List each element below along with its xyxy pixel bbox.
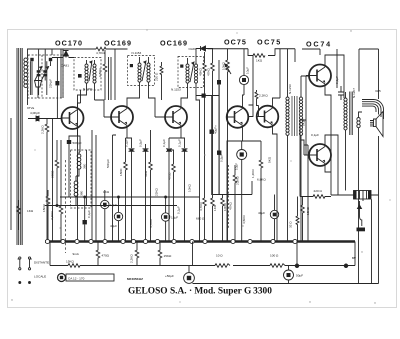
wire Q7 collector <box>325 135 338 195</box>
wire top rail left <box>52 49 96 55</box>
wire top rail right <box>279 49 281 98</box>
svg-text:N.1153: N.1153 <box>171 88 181 92</box>
transistor Q1 OC170 <box>62 107 84 129</box>
svg-text:15KΩ: 15KΩ <box>306 206 310 215</box>
svg-text:+50μF: +50μF <box>165 274 174 278</box>
svg-text:45KΩ: 45KΩ <box>199 67 203 76</box>
wire Q5 emitter <box>273 128 278 241</box>
svg-text:22KΩ: 22KΩ <box>155 187 159 196</box>
svg-text:10KΩ: 10KΩ <box>222 61 226 70</box>
diode OA81 (first) <box>52 51 74 68</box>
electrolytic 12uF <box>161 197 178 241</box>
resistor 1K left low <box>17 200 34 230</box>
transistor Q7 OC74 <box>309 144 331 166</box>
wire Q2 collector <box>127 88 140 106</box>
resistor 2.2K osc <box>50 140 63 241</box>
electrolytic 50uF bottom right <box>284 266 304 284</box>
wire T2 secondary down <box>149 88 166 117</box>
resistor 680 ohm Q1 <box>51 140 59 206</box>
resistor 4.7K top <box>96 47 128 55</box>
transistor Q2 OC169 <box>111 106 133 128</box>
svg-text:220 Ω: 220 Ω <box>314 189 323 193</box>
wire rail drop 115 <box>114 49 116 100</box>
wire agc horizontal <box>196 95 219 97</box>
resistor 2.2K Q1 base <box>41 119 49 242</box>
capacitor black det <box>202 94 206 98</box>
svg-text:OC169: OC169 <box>160 39 188 48</box>
bottom rail wire <box>192 242 194 266</box>
svg-text:N.1210: N.1210 <box>288 84 292 94</box>
svg-text:1,2KΩ: 1,2KΩ <box>251 169 255 178</box>
IF transformer T3 <box>171 57 204 92</box>
resistor 2.2K mid <box>233 165 239 241</box>
svg-text:40μF: 40μF <box>110 224 117 228</box>
electrolytic 50uF bottom mid <box>165 266 194 284</box>
svg-text:1KΩ: 1KΩ <box>103 190 110 194</box>
svg-text:0,1μF: 0,1μF <box>162 139 166 147</box>
svg-text:CA 12 - 170: CA 12 - 170 <box>68 276 85 280</box>
bottom return rail <box>193 283 379 285</box>
resistor 15K right <box>301 197 310 242</box>
driver transformer T4 <box>286 49 303 241</box>
wire Q3 emitter chain <box>169 128 185 148</box>
wire T1 right feeds <box>109 57 112 100</box>
svg-text:2,2KΩ: 2,2KΩ <box>50 211 54 220</box>
svg-text:100 Ω: 100 Ω <box>270 254 279 258</box>
wire bias mid <box>304 145 308 241</box>
electrolytic 40uF right <box>258 195 279 242</box>
resistor 470 ohm bias <box>96 242 109 266</box>
capacitor 0.1uF output <box>335 49 344 100</box>
svg-text:OC74: OC74 <box>306 40 332 49</box>
capacitor 0.1uF Q3 <box>162 139 172 241</box>
wire Q2 emitter chain <box>126 128 132 148</box>
wire top right loop <box>359 49 379 195</box>
svg-text:6,8KΩ: 6,8KΩ <box>98 68 102 77</box>
oscillator transformer dashed box <box>71 150 92 208</box>
resistor 100 low <box>221 195 227 241</box>
resistor 6.8K from rail <box>98 50 107 100</box>
svg-text:OC75: OC75 <box>257 38 282 47</box>
svg-text:6V: 6V <box>352 256 357 260</box>
resistor 45K detector <box>199 52 207 195</box>
agc rail lower <box>45 205 178 207</box>
variable capacitor C1 <box>30 49 42 95</box>
battery plus dot <box>295 242 299 268</box>
svg-text:0,1μF: 0,1μF <box>177 206 181 214</box>
svg-text:4,0KpF: 4,0KpF <box>30 111 40 115</box>
svg-text:OC169: OC169 <box>104 39 132 48</box>
wire T3 secondary down <box>196 88 200 241</box>
svg-text:470Ω: 470Ω <box>168 172 172 180</box>
capacitor black low mid <box>83 197 92 241</box>
resistor 10 ohm <box>215 254 230 268</box>
resistor 3K <box>144 130 152 241</box>
svg-text:6,8KΩ: 6,8KΩ <box>257 178 266 182</box>
agc rail upper <box>60 196 200 198</box>
capacitor 0.1uF Q3b <box>178 139 188 241</box>
wire Q7 emitter <box>325 166 331 172</box>
scan speckle <box>11 29 390 303</box>
detector diode OA81 <box>196 46 213 58</box>
antenna coil L1 <box>24 49 63 105</box>
wire Q4 collector/emitter <box>227 95 258 241</box>
svg-text:LOCALE: LOCALE <box>34 275 46 279</box>
svg-text:OC75: OC75 <box>224 38 247 47</box>
wire Q6 collector to output transformer <box>325 55 344 98</box>
svg-text:2,2KΩ: 2,2KΩ <box>130 254 134 263</box>
resistor 2.2K Q5 base <box>255 90 268 117</box>
svg-text:15KΩ: 15KΩ <box>42 203 46 212</box>
volume potentiometer 10K <box>222 49 232 241</box>
svg-text:5KΩ: 5KΩ <box>268 156 272 163</box>
wire driver secondary to bases <box>301 76 309 241</box>
tuning gang dashed box <box>28 55 63 98</box>
capacitor 22KpF <box>49 58 60 119</box>
resistor 100 ohm bias3 <box>270 254 285 268</box>
svg-text:680Ω: 680Ω <box>51 170 55 178</box>
capacitor 4.7KpF base Q1 <box>28 116 62 122</box>
svg-text:47KΩ: 47KΩ <box>229 201 233 210</box>
resistor 32 ohm <box>289 197 300 242</box>
IF transformer T2 <box>128 51 159 88</box>
resistor 470 ohm Q3 <box>168 150 176 241</box>
wire gang right leads <box>61 49 63 98</box>
svg-text:32 Ω: 32 Ω <box>289 221 293 228</box>
wire Q1 emitter chain <box>69 129 80 197</box>
svg-text:12μF: 12μF <box>171 216 178 220</box>
svg-text:380: 380 <box>80 191 84 196</box>
wire Q5 collector <box>273 98 281 106</box>
wire Q1 collector <box>78 90 81 107</box>
svg-text:OC170: OC170 <box>55 39 83 48</box>
svg-text:0,1μF: 0,1μF <box>335 76 339 84</box>
resistor 47K agc <box>207 49 215 196</box>
svg-text:15KΩ: 15KΩ <box>66 260 75 264</box>
svg-text:OA81: OA81 <box>61 64 69 68</box>
wire low rail det <box>213 85 252 195</box>
bus junction nodes <box>45 239 297 243</box>
svg-text:220 Ω: 220 Ω <box>155 72 159 81</box>
resistor 1K top mid <box>253 54 265 63</box>
wire feed Q4 base <box>249 56 254 117</box>
resistor 180 ohm Q2 <box>119 138 127 241</box>
svg-text:GELOSO S.A. · Mod. Super: GELOSO S.A. · Mod. Super G 3300 <box>128 287 272 297</box>
wire vertical T1 secondary down <box>95 89 112 117</box>
svg-text:0,1μF: 0,1μF <box>87 210 91 218</box>
capacitor 400uF mid <box>217 85 224 195</box>
resistor 6.8K Q5 <box>257 141 266 241</box>
thermistor box <box>331 191 379 284</box>
resistor 15K bias2 <box>158 242 172 266</box>
resistor 220 ohm <box>300 76 331 199</box>
transistor Q3 OC169 <box>165 106 187 128</box>
capacitor 40uF mid <box>210 95 218 195</box>
svg-text:680 Ω: 680 Ω <box>196 217 205 221</box>
resistor 15K left <box>42 190 50 241</box>
svg-text:3KΩ: 3KΩ <box>144 170 148 177</box>
wire mid verticals <box>92 130 116 241</box>
transistor Q4 OC75 <box>227 106 249 128</box>
svg-text:MF465KHZ: MF465KHZ <box>127 277 143 281</box>
svg-text:9mA: 9mA <box>73 252 80 256</box>
capacitor 50KpF Q1 emitter <box>67 140 82 145</box>
svg-text:1KΩ: 1KΩ <box>213 204 217 211</box>
svg-text:0,5μF: 0,5μF <box>139 139 143 147</box>
svg-text:360: 360 <box>83 164 87 169</box>
resistor 4.7K det low <box>199 195 207 241</box>
svg-text:9TVa: 9TVa <box>27 106 34 110</box>
svg-text:10KΩ: 10KΩ <box>188 183 192 192</box>
svg-text:0,1μF: 0,1μF <box>311 133 319 137</box>
svg-text:470Ω: 470Ω <box>102 254 110 258</box>
trimmer capacitor <box>35 81 42 99</box>
svg-text:22KpF: 22KpF <box>49 79 53 88</box>
svg-text:4,5KΩ: 4,5KΩ <box>242 215 246 224</box>
svg-text:1KΩ: 1KΩ <box>27 209 34 213</box>
svg-text:12μF: 12μF <box>110 203 117 207</box>
svg-text:DISTANTE: DISTANTE <box>34 261 49 265</box>
svg-text:10KΩ: 10KΩ <box>223 202 227 211</box>
svg-text:N.1151: N.1151 <box>83 87 93 91</box>
svg-text:0,5μF: 0,5μF <box>220 154 224 162</box>
svg-text:2,2KΩ: 2,2KΩ <box>41 125 45 134</box>
svg-text:47KΩ: 47KΩ <box>207 67 211 76</box>
wire 220 down <box>160 62 163 100</box>
resistor 1K low <box>211 195 217 241</box>
transistor Q5 OC75 <box>257 106 279 129</box>
battery minus dot <box>344 256 357 268</box>
capacitor 0.1uF Q2 <box>125 139 135 241</box>
svg-text:2,2KΩ: 2,2KΩ <box>259 94 268 98</box>
variable capacitor C2 <box>42 49 53 95</box>
capacitor agc black <box>217 60 221 195</box>
electrolytic 40uF <box>110 197 123 241</box>
svg-text:4,7KΩ: 4,7KΩ <box>149 219 153 228</box>
svg-text:4,7KΩ: 4,7KΩ <box>199 202 203 211</box>
svg-text:15KΩ: 15KΩ <box>164 254 173 258</box>
wire Q6 emitter down <box>325 87 331 195</box>
antenna ferrite rod <box>11 48 22 245</box>
speaker <box>362 89 384 137</box>
dial scale logo <box>58 274 66 282</box>
switch LOCALE <box>19 275 46 284</box>
svg-text:10 Ω: 10 Ω <box>216 254 223 258</box>
capacitor 0.5uF stage2 <box>139 139 149 241</box>
wire Q3 collector <box>181 88 188 106</box>
svg-text:0,1μF: 0,1μF <box>178 139 182 147</box>
electrolytic 10uF <box>239 49 249 95</box>
wire left drop <box>52 119 54 242</box>
resistor 2.2K bias <box>130 242 139 266</box>
wire top rail mid <box>208 49 296 62</box>
electrolytic 10uF Q4 emitter <box>235 141 247 241</box>
svg-text:OA81: OA81 <box>189 47 197 51</box>
svg-text:2,2KΩ: 2,2KΩ <box>236 176 240 185</box>
svg-text:180Ω: 180Ω <box>119 168 123 176</box>
agc dashed feedback <box>228 165 230 228</box>
svg-text:40μF: 40μF <box>258 211 265 215</box>
svg-text:4,7KΩ: 4,7KΩ <box>96 51 105 55</box>
wire top right rail <box>302 49 320 55</box>
lower rail <box>50 242 355 268</box>
earphone jack <box>357 199 366 231</box>
supply bus <box>45 242 355 266</box>
wire T1 primary bottom <box>78 89 87 241</box>
switch DISTANTE <box>18 257 49 270</box>
mechanical link dashed <box>65 160 67 253</box>
transistor Q6 OC74 <box>309 64 331 87</box>
svg-text:50KpF: 50KpF <box>106 159 110 168</box>
svg-text:1KΩ: 1KΩ <box>256 59 263 63</box>
svg-text:40μF+: 40μF+ <box>214 125 218 134</box>
svg-text:50μF: 50μF <box>296 274 303 278</box>
IF transformer T1 <box>74 58 101 92</box>
svg-text:3Ω5: 3Ω5 <box>375 89 381 93</box>
dial scale box CA 12-170 <box>66 274 114 281</box>
svg-text:10μF: 10μF <box>246 67 250 74</box>
svg-text:N.1153: N.1153 <box>132 51 142 55</box>
output transformer T5 <box>344 88 362 284</box>
svg-text:N.1207: N.1207 <box>352 88 356 98</box>
electrolytic 12uF left low <box>101 190 118 241</box>
